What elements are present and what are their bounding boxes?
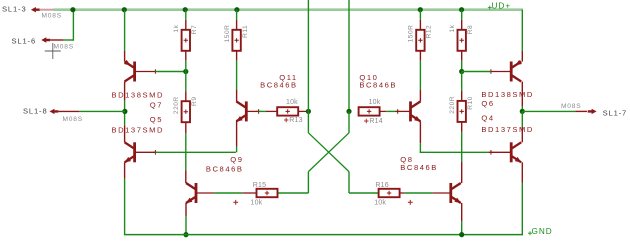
Q8 base wire from R16 bbox=[400, 192, 451, 194]
label Q11 bbox=[279, 73, 297, 82]
Q6 collector to output node bbox=[521, 82, 523, 112]
svg-text:BC846B: BC846B bbox=[206, 164, 244, 173]
svg-text:BC846B: BC846B bbox=[359, 80, 397, 89]
svg-text:10k: 10k bbox=[374, 200, 386, 207]
wire rail to R8 bbox=[461, 10, 463, 30]
svg-text:R15: R15 bbox=[253, 182, 266, 189]
wire R10 to Q8 collector bbox=[461, 122, 463, 183]
resistor R16 (10k) bbox=[379, 189, 400, 197]
svg-text:Q9: Q9 bbox=[230, 155, 243, 164]
svg-text:SL1-7: SL1-7 bbox=[603, 108, 628, 117]
wire rail to R11 bbox=[236, 10, 238, 30]
pin SL1-6 (arrow) bbox=[41, 37, 63, 42]
label 10k (R16) bbox=[374, 200, 386, 207]
svg-text:M08S: M08S bbox=[54, 43, 74, 50]
svg-text:10k: 10k bbox=[369, 99, 381, 106]
svg-text:BD138SMD: BD138SMD bbox=[481, 90, 534, 99]
wire R13 to junction bbox=[298, 110, 308, 112]
transistor Q11 (BC846B npn) bbox=[236, 101, 246, 121]
svg-text:R7: R7 bbox=[191, 25, 198, 34]
label 220R (R10) bbox=[449, 96, 456, 114]
net-label origin cross (SL1-6) bbox=[45, 43, 61, 59]
wire junction to R10 bbox=[461, 72, 463, 101]
svg-text:BC846B: BC846B bbox=[400, 163, 438, 172]
label M08S (SL1-3) bbox=[42, 12, 62, 19]
svg-text:R16: R16 bbox=[375, 182, 388, 189]
Q5 base pin bbox=[135, 150, 158, 155]
wire node to SL1-7 bbox=[522, 110, 587, 112]
origin cross R13 bbox=[284, 118, 288, 122]
svg-text:Q5: Q5 bbox=[150, 115, 163, 124]
label Q10 bbox=[359, 73, 378, 82]
label BC846B (Q10) bbox=[359, 80, 397, 89]
resistor R14 (10k) bbox=[359, 107, 380, 115]
svg-text:BD138SMD: BD138SMD bbox=[112, 90, 165, 99]
Q11 base pin bbox=[246, 109, 261, 114]
wire Q6 base to R8/R10 junction bbox=[462, 71, 491, 73]
Q9 emitter to GND rail bbox=[185, 203, 187, 235]
pin SL1-3 (arrow and tail) bbox=[31, 7, 54, 12]
origin cross Q8 bbox=[408, 200, 413, 205]
pin SL1-8 (arrow) bbox=[50, 109, 80, 114]
svg-text:M08S: M08S bbox=[561, 103, 581, 110]
label BD137SMD (right) bbox=[481, 125, 534, 134]
resistor R15 (10k) bbox=[257, 189, 278, 197]
label R14 bbox=[369, 118, 382, 125]
wire R9 to Q9 collector bbox=[185, 122, 187, 183]
label SL1-6 bbox=[12, 36, 37, 45]
svg-text:10k: 10k bbox=[251, 200, 263, 207]
svg-text:SL1-6: SL1-6 bbox=[12, 36, 37, 45]
svg-text:SL1-3: SL1-3 bbox=[2, 5, 27, 14]
svg-text:M08S: M08S bbox=[42, 12, 62, 19]
label R12 bbox=[426, 25, 433, 39]
label BC846B (Q9) bbox=[206, 164, 244, 173]
wire rail to R7 bbox=[185, 10, 187, 30]
resistor R7 (1k) bbox=[182, 30, 190, 51]
label Q7 bbox=[150, 101, 163, 110]
svg-text:GND: GND bbox=[532, 227, 553, 236]
svg-text:R10: R10 bbox=[467, 96, 474, 110]
wire X crossing right-to-left bbox=[308, 111, 349, 171]
label GND bbox=[528, 227, 553, 236]
wire GND bottom rail bbox=[125, 234, 523, 236]
label SL1-3 bbox=[2, 5, 27, 14]
junction on rail at Q7 column bbox=[122, 7, 127, 12]
label BC846B (Q8) bbox=[400, 163, 438, 172]
resistor R11 (150R) bbox=[232, 30, 240, 51]
transistor Q6 (BD138SMD pnp) bbox=[511, 60, 522, 82]
label M08S (SL1-6) bbox=[54, 43, 74, 50]
svg-text:BC846B: BC846B bbox=[260, 80, 298, 89]
Q10 emitter to Q4 base wire bbox=[420, 121, 491, 152]
transistor Q4 (BD137SMD npn) bbox=[511, 142, 521, 162]
label Q9 bbox=[230, 155, 243, 164]
label R11 bbox=[242, 25, 249, 38]
svg-text:SL1-8: SL1-8 bbox=[23, 107, 48, 116]
svg-text:220R: 220R bbox=[449, 96, 456, 114]
wire R7 to junction bbox=[185, 51, 187, 72]
label UD+ bbox=[488, 1, 511, 10]
wire cross-couple riser 1 (from top) bbox=[307, 0, 309, 111]
label R10 bbox=[467, 96, 474, 110]
label 1k (R8) bbox=[449, 24, 456, 32]
junction SL1-8 node bbox=[122, 109, 127, 114]
wire X right leg down to R16 bbox=[349, 172, 378, 193]
svg-text:BD137SMD: BD137SMD bbox=[481, 125, 534, 134]
junction SL1-7 node bbox=[520, 109, 525, 114]
Q9 base wire to R15 bbox=[196, 192, 257, 194]
svg-text:R12: R12 bbox=[426, 25, 433, 39]
transistor Q5 (BD137SMD npn) bbox=[124, 142, 134, 162]
svg-text:R8: R8 bbox=[467, 25, 474, 34]
label 1k (R7) bbox=[173, 24, 180, 32]
wire R8 to junction bbox=[461, 51, 463, 72]
wire R14 right to Q10 base bbox=[380, 109, 400, 114]
label 220R (R9) bbox=[173, 96, 180, 114]
resistor R8 (1k) bbox=[458, 30, 466, 51]
Q10 base pin bbox=[398, 110, 411, 112]
junction R8/R10/Q6-base bbox=[459, 69, 464, 74]
label Q6 bbox=[481, 99, 494, 108]
Q11 emitter to Q5 base wire bbox=[155, 121, 236, 152]
svg-text:Q6: Q6 bbox=[481, 99, 494, 108]
Q8 emitter to GND rail bbox=[461, 203, 463, 235]
svg-text:R14: R14 bbox=[369, 118, 382, 125]
origin cross Q9 bbox=[233, 200, 238, 205]
label R16 bbox=[375, 182, 388, 189]
transistor Q10 (BC846B npn) bbox=[411, 101, 421, 121]
label Q5 bbox=[150, 115, 163, 124]
junction on rail at R12 column bbox=[418, 7, 423, 12]
label BD138SMD (left) bbox=[112, 90, 165, 99]
wire Q7 base to R7/R9 junction bbox=[155, 71, 185, 73]
resistor R12 (150R) bbox=[416, 30, 424, 51]
Q7 base pin bbox=[135, 69, 158, 74]
resistor R13 (10k) bbox=[277, 107, 298, 115]
svg-text:Q4: Q4 bbox=[481, 114, 494, 123]
label Q4 bbox=[481, 114, 494, 123]
label M08S (SL1-7) bbox=[561, 103, 581, 110]
svg-text:M08S: M08S bbox=[63, 116, 83, 123]
label 10k (R14) bbox=[369, 99, 381, 106]
Q6 base pin bbox=[489, 69, 512, 74]
junction on rail at R8 column bbox=[459, 7, 464, 12]
svg-text:220R: 220R bbox=[173, 96, 180, 114]
svg-text:UD+: UD+ bbox=[492, 1, 512, 10]
label 10k (R15) bbox=[251, 200, 263, 207]
junction on rail at R7 column bbox=[183, 7, 188, 12]
wire rail to Q7 emitter bbox=[124, 10, 126, 62]
junction on GND rail (Q9) bbox=[183, 232, 188, 237]
wire cross-couple riser 2 (from top) bbox=[348, 0, 350, 111]
wire rail to R12 bbox=[419, 10, 421, 30]
label 10k (R13) bbox=[286, 99, 298, 106]
pin SL1-7 (arrow) bbox=[588, 109, 597, 114]
svg-text:BD137SMD: BD137SMD bbox=[112, 125, 165, 134]
wire junction to R9 bbox=[185, 72, 187, 102]
wire X left leg down to R15 bbox=[278, 172, 309, 193]
junction on GND rail (Q8) bbox=[459, 232, 464, 237]
wire SL1-8 to node bbox=[79, 110, 125, 112]
Q4 collector to output node bbox=[521, 111, 523, 142]
svg-text:Q7: Q7 bbox=[150, 101, 163, 110]
label R13 bbox=[289, 117, 302, 124]
svg-text:1k: 1k bbox=[173, 24, 180, 32]
svg-text:1k: 1k bbox=[449, 24, 456, 32]
svg-text:150R: 150R bbox=[224, 25, 231, 43]
Q5/Q7 collector node with SL1-8 bbox=[124, 82, 126, 143]
wire X crossing left-to-right bbox=[308, 111, 349, 171]
label 150R (R12) bbox=[408, 25, 415, 43]
resistor R10 (220R) bbox=[458, 101, 466, 122]
label BD138SMD (right) bbox=[481, 90, 534, 99]
wire UD+ top rail bbox=[54, 8, 524, 11]
label SL1-7 bbox=[603, 108, 628, 117]
junction R13 right bbox=[306, 109, 311, 114]
wire R12 to Q10 collector bbox=[419, 51, 421, 102]
Q4 base pin bbox=[489, 150, 512, 155]
junction on rail at R11 column bbox=[234, 7, 239, 12]
label BD137SMD (left) bbox=[112, 125, 165, 134]
wire SL1-6 to rail bbox=[64, 10, 74, 41]
label BC846B (Q11) bbox=[260, 80, 298, 89]
origin cross R14 bbox=[364, 119, 368, 123]
svg-text:R13: R13 bbox=[289, 117, 302, 124]
junction on rail at SL1-6 riser bbox=[70, 7, 75, 12]
transistor Q9 (BC846B npn) bbox=[186, 183, 196, 203]
resistor R9 (220R) bbox=[182, 101, 190, 122]
svg-text:R11: R11 bbox=[242, 25, 249, 38]
label 150R (R11) bbox=[224, 25, 231, 43]
label SL1-8 bbox=[23, 107, 48, 116]
svg-text:10k: 10k bbox=[286, 99, 298, 106]
transistor Q7 (BD138SMD pnp) bbox=[124, 60, 135, 82]
Q5 emitter to GND rail bbox=[124, 162, 126, 235]
label R15 bbox=[253, 182, 266, 189]
wire rail right drop to Q6 bbox=[521, 10, 523, 62]
label R8 bbox=[467, 25, 474, 34]
label R7 bbox=[191, 25, 198, 34]
transistor Q8 (BC846B npn) bbox=[451, 183, 461, 203]
Q4 emitter to GND rail bbox=[521, 162, 523, 235]
wire Q11 base to R13 bbox=[259, 110, 277, 112]
junction R7/R9/Q7-base bbox=[183, 69, 188, 74]
wire R11 to Q11 collector bbox=[236, 51, 238, 102]
label M08S (SL1-8) bbox=[63, 116, 83, 123]
label Q8 bbox=[400, 155, 413, 164]
svg-text:R9: R9 bbox=[191, 97, 198, 106]
svg-text:150R: 150R bbox=[408, 25, 415, 43]
junction R14 left bbox=[346, 109, 351, 114]
label R9 bbox=[191, 97, 198, 106]
